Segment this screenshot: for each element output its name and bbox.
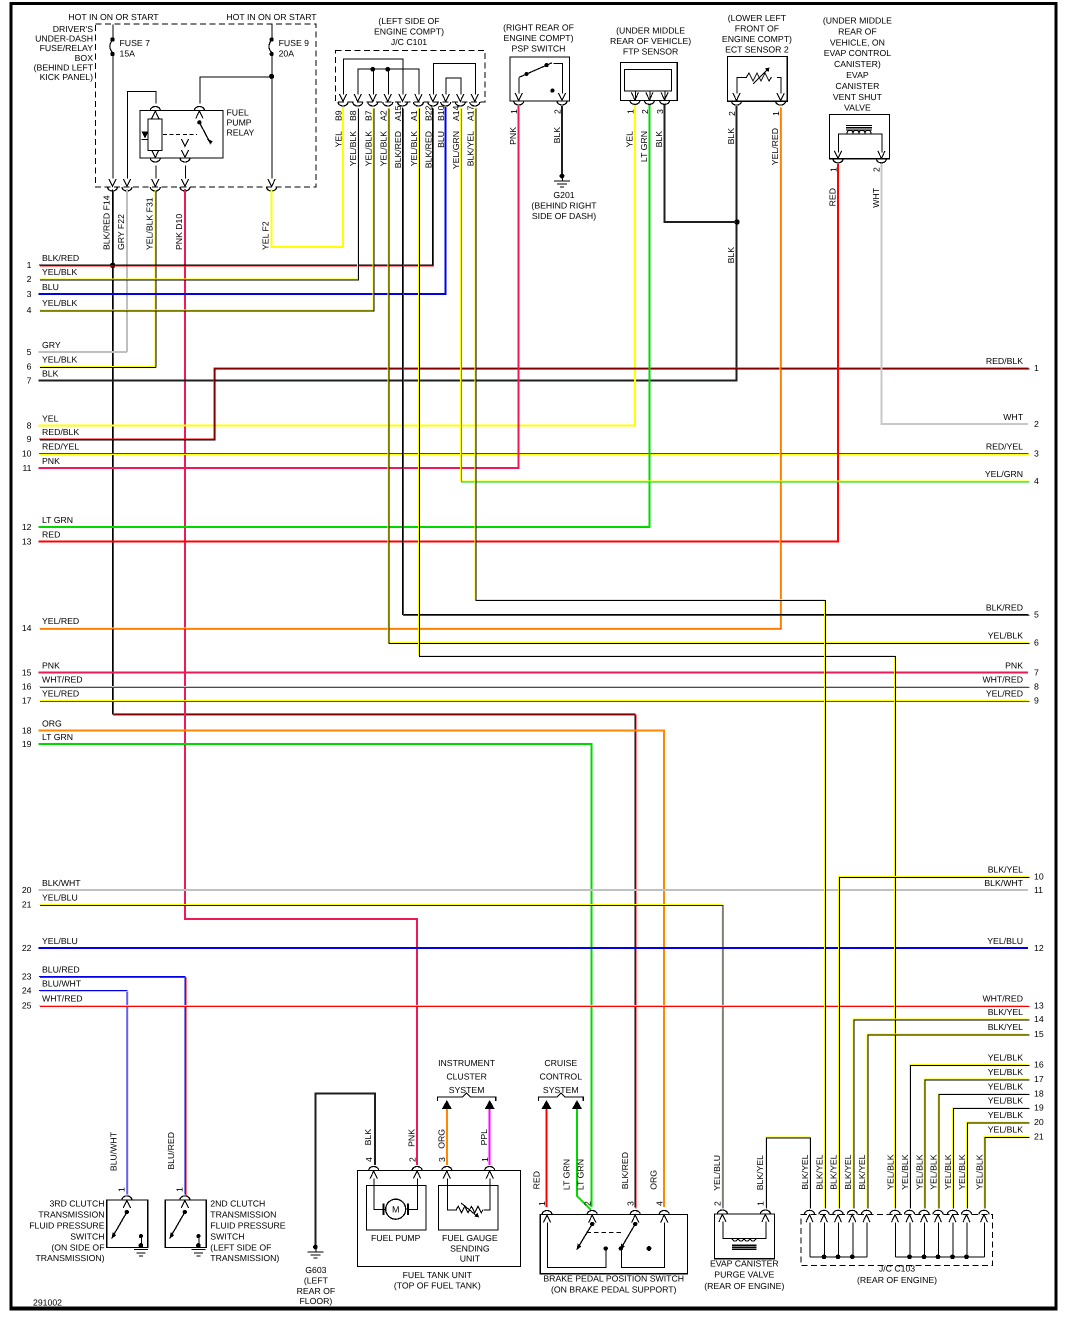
svg-text:BLK: BLK bbox=[726, 247, 736, 264]
svg-text:(BEHIND RIGHT: (BEHIND RIGHT bbox=[531, 201, 597, 211]
svg-text:EVAP CONTROL: EVAP CONTROL bbox=[824, 48, 891, 58]
svg-text:BLK: BLK bbox=[42, 369, 59, 379]
svg-text:BLK/YEL: BLK/YEL bbox=[755, 1155, 765, 1190]
svg-text:BLK/YEL: BLK/YEL bbox=[988, 1022, 1023, 1032]
svg-text:BLK/YEL: BLK/YEL bbox=[815, 1154, 825, 1189]
svg-text:YEL/BLU: YEL/BLU bbox=[42, 893, 78, 903]
svg-text:YEL F2: YEL F2 bbox=[261, 221, 271, 250]
svg-text:1: 1 bbox=[174, 1187, 184, 1192]
svg-text:10: 10 bbox=[22, 448, 32, 458]
svg-text:21: 21 bbox=[22, 899, 32, 909]
svg-text:FUSE/RELAY: FUSE/RELAY bbox=[40, 43, 94, 53]
svg-text:BLU/RED: BLU/RED bbox=[42, 965, 80, 975]
svg-text:SWITCH: SWITCH bbox=[210, 1231, 244, 1241]
svg-text:PNK: PNK bbox=[42, 456, 60, 466]
svg-text:YEL/BLK: YEL/BLK bbox=[957, 1154, 967, 1189]
svg-text:VALVE: VALVE bbox=[844, 103, 871, 113]
svg-text:FRONT OF: FRONT OF bbox=[735, 24, 779, 34]
svg-text:14: 14 bbox=[1034, 1014, 1044, 1024]
svg-text:REAR OF VEHICLE): REAR OF VEHICLE) bbox=[610, 36, 691, 46]
svg-text:9: 9 bbox=[27, 434, 32, 444]
svg-text:YEL/RED: YEL/RED bbox=[770, 128, 780, 165]
svg-text:RED/YEL: RED/YEL bbox=[42, 442, 79, 452]
svg-text:1: 1 bbox=[1034, 363, 1039, 373]
svg-text:YEL/BLU: YEL/BLU bbox=[42, 936, 78, 946]
svg-text:A17: A17 bbox=[465, 105, 475, 121]
svg-text:YEL/BLU: YEL/BLU bbox=[987, 936, 1023, 946]
svg-text:LT GRN: LT GRN bbox=[42, 732, 73, 742]
svg-text:9: 9 bbox=[1034, 695, 1039, 705]
svg-text:23: 23 bbox=[22, 971, 32, 981]
svg-text:CONTROL: CONTROL bbox=[540, 1072, 583, 1082]
svg-text:(LOWER LEFT: (LOWER LEFT bbox=[728, 13, 787, 23]
svg-text:BLK/YEL: BLK/YEL bbox=[843, 1154, 853, 1189]
svg-text:YEL/BLK: YEL/BLK bbox=[409, 131, 419, 166]
svg-text:J/C C101: J/C C101 bbox=[391, 37, 427, 47]
svg-text:(LEFT SIDE OF: (LEFT SIDE OF bbox=[210, 1242, 271, 1252]
svg-text:16: 16 bbox=[1034, 1059, 1044, 1069]
svg-text:24: 24 bbox=[22, 985, 32, 995]
svg-text:19: 19 bbox=[22, 739, 32, 749]
svg-text:GRY: GRY bbox=[42, 340, 61, 350]
svg-text:YEL/GRN: YEL/GRN bbox=[451, 131, 461, 169]
svg-text:BLK/RED: BLK/RED bbox=[986, 603, 1023, 613]
svg-text:11: 11 bbox=[1034, 885, 1043, 895]
svg-text:PURGE VALVE: PURGE VALVE bbox=[714, 1270, 774, 1280]
svg-text:CANISTER): CANISTER) bbox=[834, 59, 881, 69]
svg-text:2ND CLUTCH: 2ND CLUTCH bbox=[210, 1199, 265, 1209]
svg-text:ECT SENSOR 2: ECT SENSOR 2 bbox=[725, 45, 789, 55]
svg-text:3: 3 bbox=[625, 1201, 635, 1206]
svg-text:YEL/BLK: YEL/BLK bbox=[988, 1110, 1023, 1120]
svg-text:21: 21 bbox=[1034, 1131, 1044, 1141]
svg-text:YEL/BLK: YEL/BLK bbox=[915, 1154, 925, 1189]
svg-text:15: 15 bbox=[1034, 1029, 1044, 1039]
svg-text:WHT/RED: WHT/RED bbox=[42, 675, 83, 685]
svg-text:BLK/RED: BLK/RED bbox=[42, 253, 79, 263]
svg-text:CLUSTER: CLUSTER bbox=[446, 1072, 487, 1082]
svg-text:BLU/RED: BLU/RED bbox=[166, 1132, 176, 1170]
svg-text:YEL/GRN: YEL/GRN bbox=[985, 469, 1023, 479]
svg-text:G201: G201 bbox=[553, 190, 574, 200]
svg-text:YEL/BLK: YEL/BLK bbox=[988, 1082, 1023, 1092]
svg-text:7: 7 bbox=[27, 375, 32, 385]
svg-text:KICK PANEL): KICK PANEL) bbox=[40, 72, 94, 82]
svg-text:ORG: ORG bbox=[648, 1170, 658, 1190]
svg-text:BLK/WHT: BLK/WHT bbox=[984, 878, 1023, 888]
svg-text:1: 1 bbox=[537, 1201, 547, 1206]
svg-text:YEL/BLK: YEL/BLK bbox=[378, 131, 388, 166]
svg-text:YEL: YEL bbox=[42, 414, 59, 424]
svg-text:4: 4 bbox=[654, 1201, 664, 1206]
svg-text:BLU/WHT: BLU/WHT bbox=[42, 979, 82, 989]
svg-text:BLK/YEL: BLK/YEL bbox=[800, 1154, 810, 1189]
svg-text:RED/BLK: RED/BLK bbox=[42, 427, 79, 437]
svg-text:18: 18 bbox=[1034, 1088, 1044, 1098]
svg-text:291002: 291002 bbox=[33, 1298, 62, 1308]
svg-text:2: 2 bbox=[640, 109, 650, 114]
svg-text:BLU/WHT: BLU/WHT bbox=[109, 1131, 119, 1171]
svg-text:PNK: PNK bbox=[407, 1129, 417, 1147]
svg-text:YEL/BLK: YEL/BLK bbox=[988, 631, 1023, 641]
svg-text:1: 1 bbox=[27, 260, 32, 270]
svg-text:CANISTER: CANISTER bbox=[835, 81, 879, 91]
svg-text:YEL/BLK: YEL/BLK bbox=[988, 1096, 1023, 1106]
svg-text:BLK/YEL: BLK/YEL bbox=[465, 131, 475, 166]
svg-text:RED/BLK: RED/BLK bbox=[986, 356, 1023, 366]
svg-text:INSTRUMENT: INSTRUMENT bbox=[438, 1058, 496, 1068]
svg-text:RED: RED bbox=[532, 1171, 542, 1189]
svg-text:B8: B8 bbox=[348, 110, 358, 121]
svg-text:FUSE 9: FUSE 9 bbox=[279, 38, 310, 48]
svg-text:2: 2 bbox=[713, 1201, 723, 1206]
svg-text:YEL/BLK: YEL/BLK bbox=[988, 1053, 1023, 1063]
svg-text:6: 6 bbox=[1034, 637, 1039, 647]
svg-text:13: 13 bbox=[22, 536, 32, 546]
svg-text:BLK/RED: BLK/RED bbox=[620, 1152, 630, 1189]
svg-text:BLK: BLK bbox=[726, 128, 736, 145]
svg-text:PPL: PPL bbox=[479, 1129, 489, 1146]
svg-text:YEL/BLK: YEL/BLK bbox=[943, 1154, 953, 1189]
svg-text:TRANSMISSION): TRANSMISSION) bbox=[35, 1253, 104, 1263]
svg-text:6: 6 bbox=[27, 361, 32, 371]
svg-text:FLUID PRESSURE: FLUID PRESSURE bbox=[210, 1221, 286, 1231]
svg-text:A1: A1 bbox=[409, 110, 419, 121]
svg-text:3RD CLUTCH: 3RD CLUTCH bbox=[49, 1199, 104, 1209]
svg-text:RED/YEL: RED/YEL bbox=[986, 442, 1023, 452]
svg-text:LT GRN: LT GRN bbox=[576, 1159, 586, 1190]
svg-text:YEL: YEL bbox=[625, 131, 635, 148]
svg-text:TRANSMISSION: TRANSMISSION bbox=[38, 1210, 104, 1220]
svg-text:FLUID PRESSURE: FLUID PRESSURE bbox=[29, 1221, 105, 1231]
svg-text:YEL/BLK F31: YEL/BLK F31 bbox=[144, 197, 154, 250]
svg-text:(LEFT SIDE OF: (LEFT SIDE OF bbox=[378, 16, 439, 26]
svg-text:FLOOR): FLOOR) bbox=[299, 1296, 332, 1306]
svg-text:20: 20 bbox=[22, 885, 32, 895]
svg-text:8: 8 bbox=[27, 420, 32, 430]
svg-text:LT GRN: LT GRN bbox=[42, 515, 73, 525]
svg-text:EVAP CANISTER: EVAP CANISTER bbox=[710, 1259, 779, 1269]
svg-text:20: 20 bbox=[1034, 1117, 1044, 1127]
svg-text:RELAY: RELAY bbox=[227, 128, 255, 138]
svg-text:FUSE 7: FUSE 7 bbox=[120, 38, 151, 48]
svg-text:RED: RED bbox=[42, 530, 60, 540]
svg-text:G603: G603 bbox=[305, 1265, 326, 1275]
svg-text:PNK: PNK bbox=[42, 661, 60, 671]
svg-text:FTP SENSOR: FTP SENSOR bbox=[623, 47, 678, 57]
svg-text:LT GRN: LT GRN bbox=[562, 1159, 572, 1190]
svg-text:WHT: WHT bbox=[871, 187, 881, 207]
svg-text:4: 4 bbox=[1034, 476, 1039, 486]
svg-text:1: 1 bbox=[480, 1157, 490, 1162]
svg-text:3: 3 bbox=[437, 1157, 447, 1162]
svg-text:5: 5 bbox=[1034, 609, 1039, 619]
svg-text:GRY F22: GRY F22 bbox=[116, 214, 126, 250]
svg-text:SENDING: SENDING bbox=[450, 1243, 490, 1253]
svg-text:BRAKE PEDAL POSITION SWITCH: BRAKE PEDAL POSITION SWITCH bbox=[543, 1274, 684, 1284]
svg-text:20A: 20A bbox=[279, 49, 295, 59]
svg-text:3: 3 bbox=[1034, 448, 1039, 458]
svg-text:12: 12 bbox=[22, 522, 32, 532]
svg-text:J/C C103: J/C C103 bbox=[879, 1264, 915, 1274]
svg-text:(UNDER MIDDLE: (UNDER MIDDLE bbox=[823, 16, 892, 26]
svg-text:HOT IN ON OR START: HOT IN ON OR START bbox=[68, 12, 159, 22]
svg-text:A2: A2 bbox=[378, 110, 388, 121]
svg-text:BLK: BLK bbox=[552, 127, 562, 144]
svg-text:TRANSMISSION): TRANSMISSION) bbox=[210, 1253, 279, 1263]
svg-text:7: 7 bbox=[1034, 667, 1039, 677]
svg-text:YEL/BLK: YEL/BLK bbox=[929, 1154, 939, 1189]
svg-text:YEL/BLK: YEL/BLK bbox=[42, 298, 77, 308]
svg-text:UNIT: UNIT bbox=[460, 1254, 481, 1264]
svg-text:2: 2 bbox=[27, 274, 32, 284]
svg-text:(REAR OF ENGINE): (REAR OF ENGINE) bbox=[857, 1275, 937, 1285]
svg-text:HOT IN ON OR START: HOT IN ON OR START bbox=[226, 12, 317, 22]
svg-text:YEL/BLK: YEL/BLK bbox=[42, 267, 77, 277]
svg-text:1: 1 bbox=[828, 167, 838, 172]
svg-text:SIDE OF DASH): SIDE OF DASH) bbox=[532, 211, 596, 221]
svg-text:YEL/RED: YEL/RED bbox=[986, 689, 1023, 699]
svg-text:WHT/RED: WHT/RED bbox=[42, 994, 83, 1004]
svg-text:BLK/YEL: BLK/YEL bbox=[988, 865, 1023, 875]
svg-text:B7: B7 bbox=[363, 110, 373, 121]
svg-text:BLK/WHT: BLK/WHT bbox=[42, 878, 81, 888]
svg-text:(UNDER MIDDLE: (UNDER MIDDLE bbox=[616, 26, 685, 36]
svg-text:(ON BRAKE PEDAL SUPPORT): (ON BRAKE PEDAL SUPPORT) bbox=[551, 1284, 677, 1294]
svg-text:17: 17 bbox=[22, 695, 32, 705]
svg-text:WHT/RED: WHT/RED bbox=[982, 675, 1023, 685]
svg-text:REAR OF: REAR OF bbox=[838, 26, 877, 36]
svg-text:YEL/BLK: YEL/BLK bbox=[886, 1154, 896, 1189]
svg-text:19: 19 bbox=[1034, 1102, 1044, 1112]
svg-text:ORG: ORG bbox=[42, 719, 62, 729]
svg-text:YEL/BLK: YEL/BLK bbox=[348, 131, 358, 166]
svg-text:B22: B22 bbox=[423, 105, 433, 121]
svg-text:BLK/RED: BLK/RED bbox=[423, 131, 433, 168]
svg-text:(BEHIND LEFT: (BEHIND LEFT bbox=[34, 62, 94, 72]
svg-text:2: 2 bbox=[582, 1201, 592, 1206]
svg-text:5: 5 bbox=[27, 347, 32, 357]
svg-text:YEL/BLK: YEL/BLK bbox=[363, 131, 373, 166]
svg-text:15: 15 bbox=[22, 667, 32, 677]
svg-text:(ON SIDE OF: (ON SIDE OF bbox=[51, 1242, 104, 1252]
svg-text:YEL/RED: YEL/RED bbox=[42, 689, 79, 699]
svg-text:LT GRN: LT GRN bbox=[639, 131, 649, 162]
svg-text:CRUISE: CRUISE bbox=[544, 1058, 577, 1068]
svg-text:16: 16 bbox=[22, 681, 32, 691]
svg-text:25: 25 bbox=[22, 1000, 32, 1010]
svg-text:15A: 15A bbox=[120, 49, 136, 59]
svg-text:1: 1 bbox=[116, 1187, 126, 1192]
svg-text:2: 2 bbox=[1034, 419, 1039, 429]
svg-text:YEL/BLK: YEL/BLK bbox=[42, 355, 77, 365]
svg-text:BLK/RED F14: BLK/RED F14 bbox=[102, 195, 112, 250]
svg-text:WHT: WHT bbox=[1003, 412, 1023, 422]
svg-text:10: 10 bbox=[1034, 871, 1044, 881]
svg-text:(LEFT: (LEFT bbox=[304, 1275, 329, 1285]
svg-text:PNK D10: PNK D10 bbox=[174, 214, 184, 250]
svg-text:ORG: ORG bbox=[436, 1129, 446, 1149]
svg-text:ENGINE COMPT): ENGINE COMPT) bbox=[722, 34, 792, 44]
svg-text:FUEL PUMP: FUEL PUMP bbox=[371, 1233, 421, 1243]
svg-text:EVAP: EVAP bbox=[846, 70, 869, 80]
svg-text:PUMP: PUMP bbox=[227, 118, 252, 128]
svg-text:13: 13 bbox=[1034, 1000, 1044, 1010]
svg-text:YEL/BLU: YEL/BLU bbox=[712, 1155, 722, 1191]
svg-text:WHT/RED: WHT/RED bbox=[982, 994, 1023, 1004]
svg-text:8: 8 bbox=[1034, 681, 1039, 691]
svg-text:FUEL GAUGE: FUEL GAUGE bbox=[442, 1233, 498, 1243]
svg-text:YEL/BLK: YEL/BLK bbox=[975, 1154, 985, 1189]
svg-text:BLK/YEL: BLK/YEL bbox=[857, 1154, 867, 1189]
svg-text:REAR OF: REAR OF bbox=[297, 1286, 336, 1296]
svg-text:BOX: BOX bbox=[75, 53, 94, 63]
svg-text:VEHICLE, ON: VEHICLE, ON bbox=[830, 37, 885, 47]
svg-text:1: 1 bbox=[756, 1201, 766, 1206]
svg-text:3: 3 bbox=[655, 109, 665, 114]
svg-text:BLU: BLU bbox=[42, 282, 59, 292]
svg-text:1: 1 bbox=[625, 109, 635, 114]
svg-text:18: 18 bbox=[22, 725, 32, 735]
svg-text:12: 12 bbox=[1034, 943, 1044, 953]
svg-text:SWITCH: SWITCH bbox=[70, 1231, 104, 1241]
svg-text:1: 1 bbox=[509, 109, 519, 114]
svg-text:2: 2 bbox=[872, 167, 882, 172]
svg-text:YEL/BLK: YEL/BLK bbox=[988, 1125, 1023, 1135]
svg-text:BLK: BLK bbox=[654, 131, 664, 148]
svg-text:DRIVER'S: DRIVER'S bbox=[53, 24, 93, 34]
svg-text:ENGINE COMPT): ENGINE COMPT) bbox=[504, 33, 574, 43]
svg-text:BLK: BLK bbox=[363, 1129, 373, 1146]
svg-text:A14: A14 bbox=[451, 105, 461, 121]
svg-text:PNK: PNK bbox=[1005, 661, 1023, 671]
svg-text:4: 4 bbox=[27, 305, 32, 315]
svg-text:17: 17 bbox=[1034, 1074, 1044, 1084]
svg-text:22: 22 bbox=[22, 943, 32, 953]
svg-text:14: 14 bbox=[22, 623, 32, 633]
svg-text:FUEL: FUEL bbox=[227, 108, 249, 118]
svg-text:BLK/YEL: BLK/YEL bbox=[988, 1007, 1023, 1017]
svg-text:YEL/BLK: YEL/BLK bbox=[900, 1154, 910, 1189]
svg-text:M: M bbox=[392, 1205, 400, 1215]
svg-text:2: 2 bbox=[407, 1157, 417, 1162]
svg-text:BLK/RED: BLK/RED bbox=[393, 131, 403, 168]
svg-text:A15: A15 bbox=[393, 105, 403, 121]
svg-text:(REAR OF ENGINE): (REAR OF ENGINE) bbox=[704, 1281, 784, 1291]
svg-text:UNDER-DASH: UNDER-DASH bbox=[35, 34, 93, 44]
svg-text:(RIGHT REAR OF: (RIGHT REAR OF bbox=[503, 23, 574, 33]
svg-text:3: 3 bbox=[27, 289, 32, 299]
svg-text:PNK: PNK bbox=[508, 127, 518, 145]
svg-text:RED: RED bbox=[828, 188, 838, 206]
svg-text:4: 4 bbox=[364, 1157, 374, 1162]
svg-text:(TOP OF FUEL TANK): (TOP OF FUEL TANK) bbox=[394, 1280, 481, 1290]
svg-text:YEL/BLK: YEL/BLK bbox=[988, 1067, 1023, 1077]
svg-text:ENGINE COMPT): ENGINE COMPT) bbox=[374, 27, 444, 37]
svg-text:FUEL TANK UNIT: FUEL TANK UNIT bbox=[403, 1270, 473, 1280]
svg-text:YEL/RED: YEL/RED bbox=[42, 616, 79, 626]
svg-text:PSP SWITCH: PSP SWITCH bbox=[512, 44, 566, 54]
svg-text:TRANSMISSION: TRANSMISSION bbox=[210, 1210, 276, 1220]
svg-text:VENT SHUT: VENT SHUT bbox=[833, 92, 883, 102]
svg-text:11: 11 bbox=[22, 463, 31, 473]
svg-text:2: 2 bbox=[552, 109, 562, 114]
svg-text:BLK/YEL: BLK/YEL bbox=[829, 1154, 839, 1189]
